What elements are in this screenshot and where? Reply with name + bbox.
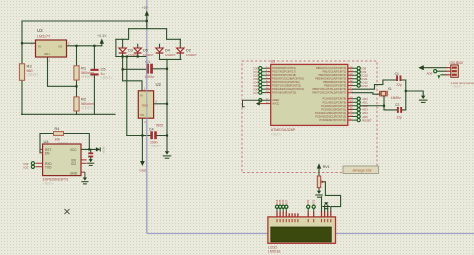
svg-text:C1: C1 xyxy=(145,60,150,64)
svg-text:D2: D2 xyxy=(186,49,191,53)
junction node VCC xyxy=(88,148,90,150)
arrow terminal left xyxy=(418,65,423,70)
svg-text:LM016L: LM016L xyxy=(268,250,281,254)
svg-text:IO7: IO7 xyxy=(284,199,288,204)
terminal IO10 xyxy=(357,74,360,77)
terminal IO9 xyxy=(357,70,360,73)
svg-text:PB1/OC1A(PCINT1): PB1/OC1A(PCINT1) xyxy=(323,70,347,74)
terminal IO11 xyxy=(357,77,360,80)
wire D3 branch xyxy=(122,39,124,81)
bus line purple overlay xyxy=(146,54,148,234)
resistor R1 xyxy=(74,66,79,80)
dashed selection rectangle xyxy=(242,61,377,173)
svg-text:PD0/RXD(PCINT16): PD0/RXD(PCINT16) xyxy=(272,66,296,70)
LCD pin numbers xyxy=(277,219,331,222)
junction node C4 left xyxy=(141,134,143,136)
svg-text:ADJ: ADJ xyxy=(44,52,50,56)
wire C4 line xyxy=(127,135,167,137)
svg-text:C2: C2 xyxy=(395,103,399,107)
svg-text:AVCC: AVCC xyxy=(272,102,279,106)
diode D2 xyxy=(177,48,185,52)
junction node crystal bottom xyxy=(383,105,385,107)
wire bridge left step xyxy=(116,29,129,40)
svg-text:PD5/T1/OC0B(PCINT21): PD5/T1/OC0B(PCINT21) xyxy=(272,84,301,88)
terminal IO3 / pin 5 xyxy=(259,77,262,80)
pin AREF with hook wire xyxy=(243,100,271,107)
wire U2 output right xyxy=(154,103,167,105)
terminal IO6 / pin 12 xyxy=(259,88,262,91)
svg-text:<TEXT>: <TEXT> xyxy=(81,75,93,79)
display LCD2 LM016L xyxy=(268,217,336,243)
wire to ground xyxy=(406,91,423,96)
svg-text:VO: VO xyxy=(140,113,145,117)
terminal IO4 / pin 6 xyxy=(259,81,262,84)
terminal AD1 xyxy=(357,101,360,104)
svg-text:PC4/ADC4/SDA(PCINT12): PC4/ADC4/SDA(PCINT12) xyxy=(315,111,346,115)
svg-text:PD6/AIN0/OC0A(PCINT22): PD6/AIN0/OC0A(PCINT22) xyxy=(272,87,304,91)
capacitor on VCC net xyxy=(88,152,93,154)
svg-text:C5: C5 xyxy=(101,67,107,72)
svg-text:RESET: RESET xyxy=(362,118,372,122)
terminal AD4 xyxy=(357,111,360,114)
wire D5 branch xyxy=(137,44,139,56)
terminal ring TXD xyxy=(31,165,34,168)
svg-text:C4: C4 xyxy=(149,128,154,132)
terminal AD3 xyxy=(357,108,360,111)
terminal RESET xyxy=(357,119,360,122)
svg-text:22p: 22p xyxy=(396,83,402,87)
svg-text:TXD: TXD xyxy=(45,166,52,170)
wire U3 adj down xyxy=(48,57,77,86)
wire main right vertical to ground xyxy=(166,59,168,151)
wire bridge lower-right rail xyxy=(160,58,181,60)
svg-text:1-wire temp sensor: 1-wire temp sensor xyxy=(450,81,474,85)
svg-text:PC2/ADC2(PCINT10): PC2/ADC2(PCINT10) xyxy=(321,104,346,108)
wire DQ pin to ring xyxy=(437,70,446,72)
svg-text:R4: R4 xyxy=(55,127,60,131)
wire U2 gnd down xyxy=(141,118,143,161)
svg-text:1N4007: 1N4007 xyxy=(143,53,154,57)
junction node +5V rail xyxy=(146,20,148,22)
wire crystal bottom junction xyxy=(384,96,397,110)
bus line purple vertical xyxy=(146,0,148,234)
svg-text:D3: D3 xyxy=(128,49,133,53)
diode D5 xyxy=(134,48,142,52)
junction node D3 lower rail xyxy=(122,55,124,57)
svg-text:<TEXT>: <TEXT> xyxy=(27,73,39,77)
bus line purple horizontal xyxy=(147,233,474,235)
potentiometer RV1 xyxy=(317,176,320,188)
svg-text:C1: C1 xyxy=(395,72,399,76)
terminal IO12 xyxy=(357,81,360,84)
junction node R1 top xyxy=(75,45,77,47)
svg-text:AREF: AREF xyxy=(272,98,279,102)
svg-text:<TEXT>: <TEXT> xyxy=(452,85,462,89)
svg-text:<TEXT>: <TEXT> xyxy=(271,133,282,137)
ground under U4 GND pin xyxy=(84,172,86,177)
svg-text:PB5/SCK(PCINT5): PB5/SCK(PCINT5) xyxy=(324,84,346,88)
ground symbol right column xyxy=(165,151,169,154)
wire C1b right + right rail xyxy=(401,80,405,110)
wire R4 right to VCC xyxy=(64,134,90,150)
origin cross marker xyxy=(65,209,70,214)
right pin stubs PC0-PC6 xyxy=(352,99,357,120)
svg-text:PB3/MOSI/OC2A(PCINT3): PB3/MOSI/OC2A(PCINT3) xyxy=(315,77,346,81)
power terminal +5V (RV1) xyxy=(317,163,321,168)
junction node branch lower rail xyxy=(126,55,128,57)
wire +5V stem xyxy=(146,15,148,29)
svg-text:1N4007: 1N4007 xyxy=(186,53,197,57)
power arrow right of VCC xyxy=(96,147,100,151)
terminal IO2 / pin 4 xyxy=(259,74,262,77)
terminal IO13 xyxy=(357,84,360,87)
LCD pin stubs (14) xyxy=(277,212,331,217)
wire R4 left to RST xyxy=(40,134,54,153)
wire XTAL1 staircase to C1 xyxy=(353,80,397,89)
svg-text:<TEXT>: <TEXT> xyxy=(81,106,93,110)
svg-text:D5: D5 xyxy=(143,49,148,53)
svg-text:PC5/ADC5/SCL(PCINT13): PC5/ADC5/SCL(PCINT13) xyxy=(315,115,346,119)
svg-text:<TEXT>: <TEXT> xyxy=(43,182,54,186)
ground terminal under U2 gnd (arrow style) xyxy=(140,161,145,166)
wire to U2 input xyxy=(123,81,142,91)
svg-text:GND: GND xyxy=(140,169,148,173)
svg-text:PD4/T0/XCK(PCINT20): PD4/T0/XCK(PCINT20) xyxy=(272,80,299,84)
junction node C5 top xyxy=(93,45,95,47)
svg-text:D4: D4 xyxy=(165,49,170,53)
terminal IO1 / pin 3 xyxy=(259,70,262,73)
capacitor C5 xyxy=(90,69,98,71)
svg-text:IO13: IO13 xyxy=(362,84,369,88)
svg-text:PD7/AIN1(PCINT23): PD7/AIN1(PCINT23) xyxy=(272,91,296,95)
svg-text:VI: VI xyxy=(140,94,143,98)
diode D4 xyxy=(156,48,164,52)
svg-text:IO1: IO1 xyxy=(312,199,316,204)
svg-text:IO2: IO2 xyxy=(71,162,76,166)
wire GND pin xyxy=(441,74,446,76)
wire RV1 wiper loop to LCD VEE xyxy=(323,182,341,212)
svg-text:IO2: IO2 xyxy=(24,165,29,169)
wire left rail down xyxy=(21,21,23,114)
small ground arrow under DQ ring xyxy=(437,75,440,79)
terminal AD2 xyxy=(357,104,360,107)
right pin stubs PB0-PB7 xyxy=(352,68,357,85)
svg-text:U4: U4 xyxy=(44,139,50,144)
wire +5V to RV1 xyxy=(318,168,320,176)
svg-text:+5V: +5V xyxy=(142,6,149,10)
junction node C1 left xyxy=(122,68,124,70)
junction node R1/R2/ADJ xyxy=(75,85,77,87)
svg-text:LM317T: LM317T xyxy=(37,35,51,39)
annotation label box "design 336" xyxy=(343,166,378,174)
svg-text:X1: X1 xyxy=(388,87,392,91)
left pin stubs PD0-PD7 xyxy=(262,68,267,92)
svg-text:AD5: AD5 xyxy=(427,72,433,76)
ground under RV1 xyxy=(317,191,321,194)
svg-text:<TEXT>: <TEXT> xyxy=(101,76,113,80)
wire lcd E pin up xyxy=(321,197,323,212)
svg-text:+5.3V: +5.3V xyxy=(97,34,107,38)
wire R2 leads xyxy=(76,86,78,114)
junction node U3 input xyxy=(21,42,23,44)
svg-text:R2: R2 xyxy=(81,97,87,102)
terminal AD0 xyxy=(357,97,360,100)
svg-text:U3: U3 xyxy=(37,28,43,33)
terminal ring AD5 xyxy=(434,70,437,73)
wire C1 right xyxy=(153,68,167,70)
ground symbol crystal xyxy=(421,96,425,99)
svg-text:RV1: RV1 xyxy=(323,165,330,169)
wire vdd vss stubs up xyxy=(325,205,328,212)
svg-text:1N4007: 1N4007 xyxy=(165,53,176,57)
wire XTAL2 to crystal xyxy=(353,93,380,95)
pin AVCC with arrow terminal xyxy=(260,103,271,105)
svg-text:PC1/ADC1(PCINT9): PC1/ADC1(PCINT9) xyxy=(323,100,347,104)
wire D2 branch xyxy=(179,39,181,59)
wire R1 leads xyxy=(76,46,78,87)
svg-text:VCC: VCC xyxy=(70,148,77,152)
svg-text:1000u: 1000u xyxy=(145,75,155,79)
terminal IO8 xyxy=(357,67,360,70)
svg-text:IO7: IO7 xyxy=(253,91,258,95)
wire U3 output xyxy=(67,45,102,47)
svg-text:PD3/INT1/OC2B(PCINT19): PD3/INT1/OC2B(PCINT19) xyxy=(272,77,304,81)
svg-text:PD1/TXD(PCINT17): PD1/TXD(PCINT17) xyxy=(272,70,295,74)
wire C1 left xyxy=(123,68,147,70)
junction node D5 bottom xyxy=(137,55,139,57)
junction node C4 right xyxy=(166,134,168,136)
svg-text:EN: EN xyxy=(45,152,50,156)
svg-text:+3.3V: +3.3V xyxy=(101,146,105,153)
svg-text:PC6/RESET(PCINT14): PC6/RESET(PCINT14) xyxy=(319,118,346,122)
wire D4 branch xyxy=(159,44,161,59)
svg-text:7805: 7805 xyxy=(142,104,149,108)
wire bridge lower-left rail xyxy=(116,56,146,58)
svg-text:IO0: IO0 xyxy=(306,199,310,204)
ground above LCD vss xyxy=(324,202,328,205)
wire left bypass xyxy=(115,39,117,56)
terminal IO7 / pin 13 xyxy=(259,91,262,94)
wire bridge top rail xyxy=(129,28,167,30)
svg-text:<TEXT>: <TEXT> xyxy=(150,144,161,148)
svg-text:PB7/TOSC2/XTAL2(PCINT7): PB7/TOSC2/XTAL2(PCINT7) xyxy=(313,91,347,95)
svg-text:PB0/ICP1/CLKO(PCINT0): PB0/ICP1/CLKO(PCINT0) xyxy=(316,66,346,70)
junction node C1 right col xyxy=(166,68,168,70)
wire PC2 row to crystal xyxy=(360,105,384,107)
resistor R2 xyxy=(74,97,79,111)
wire C5 leads xyxy=(93,46,95,115)
terminal IO0 / pin 2 xyxy=(259,67,262,70)
svg-text:VO: VO xyxy=(58,45,63,49)
junction node U2 out col xyxy=(166,103,168,105)
svg-text:VI: VI xyxy=(38,45,41,49)
svg-text:GND: GND xyxy=(70,172,78,176)
terminal AD5 xyxy=(357,115,360,118)
svg-text:atmega 328: atmega 328 xyxy=(353,169,372,173)
wire left branch to C4 line xyxy=(126,57,128,136)
pin stubs U4 left xyxy=(35,149,86,172)
svg-text:PB6/TOSC1/XTAL1(PCINT6): PB6/TOSC1/XTAL1(PCINT6) xyxy=(313,87,347,91)
terminal IO5 / pin 11 xyxy=(259,84,262,87)
terminal ring RXD xyxy=(31,162,34,165)
wire to U3 input xyxy=(22,42,36,44)
power terminal +5.3V xyxy=(101,44,103,46)
svg-text:7805: 7805 xyxy=(156,124,164,128)
wire RV1 bottom to ground xyxy=(318,188,320,192)
svg-text:U1: U1 xyxy=(271,60,275,64)
svg-text:R1: R1 xyxy=(81,66,87,71)
ground under cap xyxy=(89,159,93,162)
wire bottom ground rail xyxy=(22,113,116,115)
diode D3 xyxy=(119,48,127,52)
svg-text:PC3/ADC3(PCINT11): PC3/ADC3(PCINT11) xyxy=(321,107,346,111)
junction node right rail xyxy=(405,90,407,92)
sensor DS18B20 pins xyxy=(446,68,451,75)
svg-text:PB4/MISO(PCINT4): PB4/MISO(PCINT4) xyxy=(323,80,346,84)
svg-text:PC0/ADC0(PCINT8): PC0/ADC0(PCINT8) xyxy=(323,97,347,101)
wire bridge right step xyxy=(167,29,181,40)
svg-text:R3: R3 xyxy=(27,64,33,69)
svg-text:U2: U2 xyxy=(156,82,162,87)
svg-text:16MHz: 16MHz xyxy=(391,96,402,100)
svg-text:PD2/INT0(PCINT18): PD2/INT0(PCINT18) xyxy=(272,73,296,77)
resistor R3 xyxy=(19,64,24,81)
wire VDD pin to arrow terminal xyxy=(423,67,446,69)
svg-text:ATMEGA328P: ATMEGA328P xyxy=(271,128,296,132)
wire top rail xyxy=(22,20,147,22)
svg-text:22p: 22p xyxy=(397,116,403,120)
wire VCC to arrow xyxy=(81,148,96,150)
wire cap to gnd xyxy=(90,149,92,159)
svg-text:PB2/SS/OC1B(PCINT2): PB2/SS/OC1B(PCINT2) xyxy=(318,73,346,77)
